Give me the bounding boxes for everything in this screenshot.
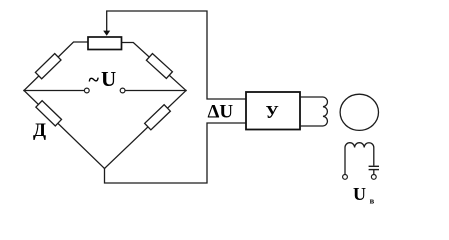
wire: feedback from wiper up and across to amplifier input xyxy=(107,11,246,99)
wire: left vertex to supply terminal xyxy=(24,90,85,92)
svg-text:У: У xyxy=(266,102,279,122)
svg-text:Д: Д xyxy=(33,120,46,141)
wire: bottom-left bridge arm (left vertex to bottom vertex) xyxy=(24,91,105,169)
resistor Д (sensor, bottom-left arm) xyxy=(36,101,62,126)
capacitor C (in excitation circuit) xyxy=(369,166,379,169)
wire: bottom vertex down, across and up to amplifier lower input xyxy=(105,123,247,183)
wire: supply terminal to right vertex xyxy=(125,90,187,92)
arrow: wiper drive into potentiometer xyxy=(103,31,110,36)
wire: bottom-right bridge arm (bottom vertex to right vertex) xyxy=(105,91,187,169)
terminal: excitation right xyxy=(371,175,376,180)
wire: excitation winding left lead xyxy=(344,148,346,175)
terminal: supply left xyxy=(84,88,89,93)
svg-text:U: U xyxy=(353,184,366,204)
motor control winding xyxy=(300,97,327,126)
motor M (rotor) xyxy=(340,94,378,130)
svg-text:~: ~ xyxy=(89,69,100,91)
wire: top-left bridge arm (left vertex to potentiometer) xyxy=(24,42,88,91)
wire: excitation winding right lead xyxy=(373,148,375,166)
amplifier У xyxy=(246,92,300,130)
potentiometer R (balancing rheostat) xyxy=(88,37,122,50)
wire: top-right bridge arm (potentiometer to right vertex) xyxy=(122,43,187,91)
resistor (top-left arm) xyxy=(35,54,61,79)
svg-text:ΔU: ΔU xyxy=(208,102,234,123)
resistor (top-right arm) xyxy=(146,54,172,79)
resistor (bottom-right arm) xyxy=(145,105,171,130)
svg-text:в: в xyxy=(370,195,375,205)
wire: capacitor to terminal xyxy=(373,170,375,175)
svg-text:U: U xyxy=(101,67,116,91)
terminal: excitation left xyxy=(343,175,348,180)
excitation winding (inductor) xyxy=(345,143,374,148)
terminal: supply right xyxy=(120,88,125,93)
